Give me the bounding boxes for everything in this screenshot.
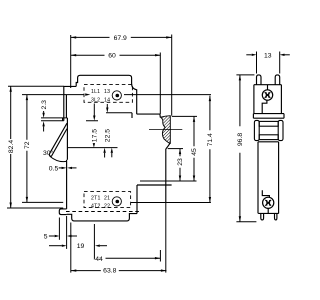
front view: bottom channel outline bbox=[67, 214, 137, 221]
front view: body top-left edge bbox=[64, 86, 76, 120]
side view: clip bottom line bbox=[258, 141, 279, 143]
reference plane line y94.6 bbox=[22, 94, 211, 96]
front view: toggle lever upper edge bbox=[49, 123, 67, 154]
front view: notch lower curve bbox=[166, 143, 170, 149]
dimension 63.8 bbox=[71, 203, 167, 275]
svg-text:67.9: 67.9 bbox=[114, 35, 127, 42]
side view: left mounting prong bbox=[257, 75, 262, 85]
top terminal cover dashed box bbox=[84, 85, 132, 103]
front view: lower right body edge bbox=[137, 184, 172, 186]
svg-text:0.5: 0.5 bbox=[49, 165, 59, 172]
extension line from 67.9/60 left bbox=[70, 35, 72, 88]
svg-text:63.8: 63.8 bbox=[103, 267, 116, 274]
front view: lower front face bbox=[66, 160, 68, 209]
svg-text:14: 14 bbox=[104, 97, 110, 103]
side view: step above lower screw bbox=[262, 190, 269, 197]
dimension 2.3 bbox=[41, 100, 48, 132]
dimension 22.5 bbox=[105, 104, 114, 157]
side view: upper left edge bbox=[253, 85, 255, 114]
svg-text:13: 13 bbox=[264, 52, 272, 59]
front view: 23 top extension line bbox=[168, 148, 183, 150]
side view: middle band bbox=[253, 114, 284, 119]
side view: right foot bbox=[275, 213, 277, 220]
dimension 67.9 bbox=[71, 35, 172, 42]
svg-text:17.5: 17.5 bbox=[92, 129, 99, 142]
front view: din rail notch hatched section bbox=[161, 116, 171, 144]
svg-text:4T2: 4T2 bbox=[91, 204, 101, 210]
side view: upper terminal screw bbox=[262, 90, 272, 100]
side view: lower terminal screw bbox=[263, 197, 274, 208]
front view: rail release tab bump bbox=[59, 209, 66, 215]
front view: toggle pivot face bbox=[66, 118, 68, 160]
dimension 72 bbox=[24, 95, 31, 203]
bottom terminal cover dashed box bbox=[84, 192, 131, 208]
small reference arrow into terminal box bbox=[85, 93, 90, 95]
dimension 96.8 bbox=[236, 75, 256, 222]
svg-text:22: 22 bbox=[104, 204, 110, 210]
extension line from 67.9 right bbox=[171, 35, 173, 116]
front view: toggle escutcheon top block bbox=[76, 75, 137, 114]
svg-text:22.5: 22.5 bbox=[105, 129, 112, 142]
svg-text:44: 44 bbox=[95, 256, 103, 263]
front view: recess corner vertical bbox=[131, 113, 133, 118]
front view: recess top edge y113.7 bbox=[106, 112, 132, 114]
svg-text:13: 13 bbox=[104, 89, 110, 95]
extension line from 60 right bbox=[159, 53, 161, 115]
dimension 17.5 bbox=[92, 104, 106, 158]
svg-text:23: 23 bbox=[177, 158, 184, 166]
side view: right mounting prong bbox=[275, 75, 280, 85]
svg-text:1L1: 1L1 bbox=[91, 89, 100, 95]
dimension 71.4 bbox=[207, 96, 214, 203]
side view: top face bbox=[254, 84, 282, 86]
front view: bottom edge y202.5 with extension to 71.4 bbox=[131, 202, 211, 204]
side view: clip lower bar bbox=[259, 135, 278, 140]
svg-text:82.4: 82.4 bbox=[8, 140, 15, 153]
dimension 19 bbox=[49, 216, 107, 260]
front view: 23/45 bottom extension line bbox=[140, 180, 197, 182]
front view: step vertical bbox=[62, 118, 64, 121]
svg-text:71.4: 71.4 bbox=[207, 133, 214, 146]
svg-text:2T1: 2T1 bbox=[91, 195, 101, 201]
svg-text:2.3: 2.3 bbox=[41, 100, 48, 110]
dimension 44 bbox=[94, 250, 160, 263]
front view: upper front face line bbox=[65, 95, 67, 118]
front view: 72 and 82.4 bottom extension lines bbox=[7, 202, 63, 208]
svg-text:72: 72 bbox=[24, 141, 31, 149]
side view: clip upper bar bbox=[259, 121, 278, 126]
svg-text:60: 60 bbox=[108, 53, 116, 60]
svg-text:45: 45 bbox=[191, 148, 198, 156]
front view: ledge line / 17.5 reference bbox=[41, 120, 98, 122]
svg-text:96.8: 96.8 bbox=[237, 133, 244, 146]
bottom terminal markings bbox=[91, 195, 121, 209]
dimension 23 bbox=[177, 149, 184, 181]
front view: notch centerline horizontal bbox=[149, 129, 182, 131]
side view: bottom centerline bbox=[267, 208, 269, 213]
svg-text:30°: 30° bbox=[43, 149, 54, 157]
dimension 82.4 bbox=[8, 86, 64, 208]
side view: step under screw bbox=[262, 100, 267, 113]
side view: left foot bbox=[261, 213, 264, 220]
front view: 2.3 step upper line bbox=[41, 117, 67, 119]
side view: clip left rail bbox=[254, 120, 259, 140]
dimension 45 bbox=[172, 116, 198, 181]
side view: top centerline bbox=[267, 85, 269, 90]
svg-text:3L2: 3L2 bbox=[91, 97, 100, 103]
dimension 5 bbox=[44, 218, 77, 241]
front view: recess bottom reference line bbox=[68, 147, 118, 149]
front view: bottom right step vertical bbox=[136, 185, 138, 214]
svg-text:19: 19 bbox=[77, 243, 85, 250]
dimension 13 bbox=[246, 52, 289, 74]
front view: toggle lever lower edge bbox=[51, 129, 67, 157]
side view: bottom face bbox=[258, 212, 279, 214]
side view: lower right edge bbox=[278, 142, 280, 214]
svg-text:5: 5 bbox=[44, 233, 48, 240]
front view: lever tip cap bbox=[49, 154, 51, 157]
side view: lower left edge bbox=[257, 142, 259, 214]
side view: upper right edge bbox=[280, 85, 282, 114]
front view: right edge below notch bbox=[165, 149, 167, 203]
front view: 30 degree sweep arc bbox=[50, 156, 67, 161]
bottom cover dashed line bbox=[66, 211, 140, 213]
dimension 0.5 bbox=[49, 165, 77, 172]
top terminal markings bbox=[91, 89, 121, 103]
dimension 60 bbox=[71, 53, 161, 60]
svg-text:21: 21 bbox=[104, 195, 110, 201]
side view: clip right rail bbox=[278, 120, 283, 140]
